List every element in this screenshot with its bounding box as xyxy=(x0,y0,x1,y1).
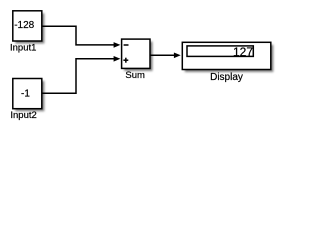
block Display xyxy=(182,42,273,72)
svg-text:Sum: Sum xyxy=(125,70,145,81)
svg-text:Input2: Input2 xyxy=(10,110,36,121)
svg-text:Display: Display xyxy=(210,72,243,83)
svg-text:Input1: Input1 xyxy=(10,43,36,54)
svg-text:127: 127 xyxy=(233,45,253,59)
plus sign (port 2) xyxy=(123,58,128,63)
svg-text:-1: -1 xyxy=(21,89,30,100)
minus sign (port 1) xyxy=(124,44,129,46)
block Input2 (constant -1) xyxy=(13,79,45,112)
wire Input2 to Sum plus input xyxy=(42,56,120,93)
wire Sum output to Display input xyxy=(150,53,181,59)
svg-text:-128: -128 xyxy=(14,20,34,31)
wire Input1 to Sum minus input xyxy=(42,26,120,48)
sum block Sum xyxy=(122,39,153,71)
block Input1 (constant -128) xyxy=(13,11,45,44)
